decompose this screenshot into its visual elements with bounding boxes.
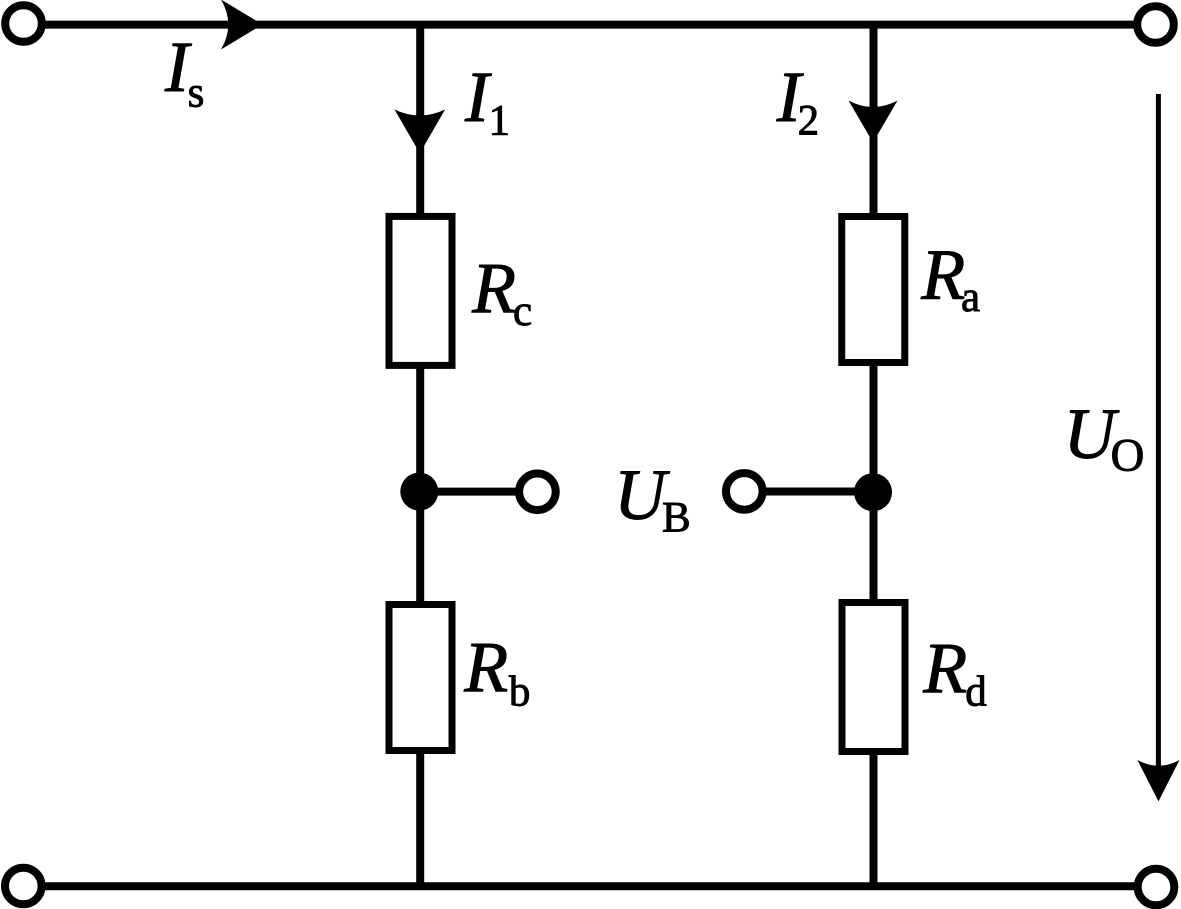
terminal top-left bbox=[5, 5, 42, 42]
resistor Ra body bbox=[842, 217, 905, 363]
label I1 bbox=[464, 57, 510, 145]
label Rb bbox=[463, 627, 530, 716]
node B1 junction dot left bbox=[400, 473, 438, 511]
svg-text:2: 2 bbox=[798, 98, 820, 145]
wire right branch vertical bbox=[870, 24, 878, 886]
svg-text:d: d bbox=[965, 669, 987, 716]
svg-text:c: c bbox=[513, 288, 532, 335]
arrow current I2 on right branch bbox=[849, 101, 898, 143]
label UO bbox=[1064, 394, 1145, 481]
arrow current I1 on left branch bbox=[395, 110, 446, 154]
svg-text:R: R bbox=[471, 248, 516, 328]
label Rd bbox=[922, 628, 987, 716]
wire bottom horizontal bbox=[42, 882, 1136, 890]
terminal top-right bbox=[1137, 6, 1174, 43]
svg-text:R: R bbox=[922, 628, 967, 708]
terminal bridge left open circle bbox=[519, 474, 556, 511]
svg-text:B: B bbox=[662, 494, 691, 541]
label UB bbox=[614, 455, 691, 542]
wire bridge right horizontal bbox=[761, 488, 874, 496]
terminal bottom-right bbox=[1138, 869, 1175, 906]
svg-text:a: a bbox=[961, 274, 980, 321]
svg-text:O: O bbox=[1111, 430, 1145, 482]
resistor Rd body bbox=[842, 603, 905, 752]
wire bridge left horizontal bbox=[420, 488, 522, 496]
arrow current Is on top wire bbox=[221, 0, 263, 50]
svg-text:R: R bbox=[920, 234, 965, 314]
terminal bridge right open circle bbox=[726, 473, 763, 510]
node B2 junction dot right bbox=[854, 473, 892, 511]
wire left branch vertical bbox=[416, 24, 424, 886]
label Rc bbox=[471, 248, 532, 335]
svg-text:b: b bbox=[509, 669, 531, 716]
svg-text:1: 1 bbox=[489, 98, 511, 145]
svg-text:R: R bbox=[463, 627, 508, 707]
resistor Rb body bbox=[389, 605, 452, 751]
label I2 bbox=[776, 57, 819, 145]
arrow output voltage UO bbox=[1137, 94, 1179, 801]
label Ra bbox=[920, 234, 980, 321]
label Is bbox=[164, 27, 204, 116]
resistor Rc body bbox=[389, 216, 452, 365]
svg-text:s: s bbox=[188, 69, 205, 116]
terminal bottom-left bbox=[5, 868, 42, 905]
wire top horizontal bbox=[42, 21, 1136, 29]
